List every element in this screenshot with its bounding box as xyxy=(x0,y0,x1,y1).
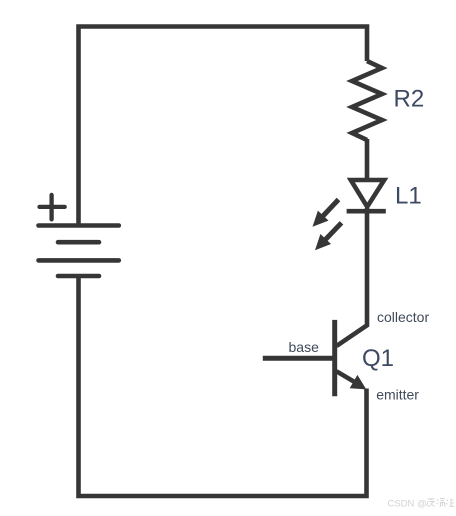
wire top loop: left riser, top rail, right drop to resistor xyxy=(79,27,368,226)
wire emitter to bottom rail and battery negative xyxy=(79,276,367,496)
svg-text:emitter: emitter xyxy=(376,386,419,402)
svg-text:L1: L1 xyxy=(395,182,422,209)
LED L1 triangle (anode) xyxy=(351,180,384,207)
transistor Q1 emitter lead xyxy=(337,371,362,386)
wire LED to collector junction, and Q1 collector lead xyxy=(337,208,368,346)
LED arrow 1 head xyxy=(313,211,329,227)
battery negative plate (short) xyxy=(58,274,99,279)
battery plus sign xyxy=(40,195,65,220)
svg-text:R2: R2 xyxy=(394,86,425,113)
transistor Q1 emitter arrowhead xyxy=(350,375,367,390)
battery plate long xyxy=(39,258,119,263)
LED emission arrow 1 shaft xyxy=(323,200,339,217)
wire resistor to LED xyxy=(365,139,370,180)
svg-text:CSDN @: CSDN @ xyxy=(388,499,427,510)
LED emission arrow 2 shaft xyxy=(326,223,342,240)
transistor Q1 base lead xyxy=(263,356,335,361)
resistor R2 xyxy=(352,61,382,140)
svg-text:collector: collector xyxy=(377,309,429,325)
svg-text:base: base xyxy=(289,339,320,355)
LED L1 cathode bar xyxy=(347,209,386,214)
transistor Q1 base bar xyxy=(332,320,337,396)
battery positive plate (long) xyxy=(39,223,119,228)
svg-text:Q1: Q1 xyxy=(362,345,394,372)
battery plate short xyxy=(58,240,99,245)
LED arrow 2 head xyxy=(315,234,331,250)
